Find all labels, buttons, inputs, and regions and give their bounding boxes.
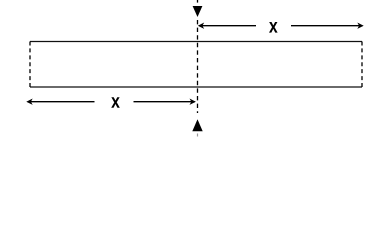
centerline bottom dash xyxy=(197,134,199,137)
plate top edge xyxy=(30,41,362,43)
bottom dimension line right segment xyxy=(134,101,195,103)
top dimension left arrowhead xyxy=(198,23,204,29)
centerline top datum arrowhead (solid, points down) xyxy=(193,6,203,17)
bottom dimension left arrowhead xyxy=(26,99,32,105)
centerline (dashed) xyxy=(197,20,199,113)
top dimension line left segment xyxy=(199,25,256,27)
top dimension line right segment xyxy=(291,25,363,27)
top dimension label x xyxy=(269,22,278,33)
plate left edge (hidden/dashed) xyxy=(29,42,31,88)
plate bottom edge xyxy=(30,86,362,88)
bottom dimension line left segment xyxy=(28,101,95,103)
plate right edge (hidden/dashed) xyxy=(361,42,363,88)
centerline top dash xyxy=(197,0,199,3)
top dimension right arrowhead xyxy=(357,23,363,29)
bottom dimension right arrowhead xyxy=(190,99,196,105)
centerline bottom datum arrowhead (solid, points up) xyxy=(192,119,202,131)
bottom dimension label x xyxy=(111,97,120,108)
